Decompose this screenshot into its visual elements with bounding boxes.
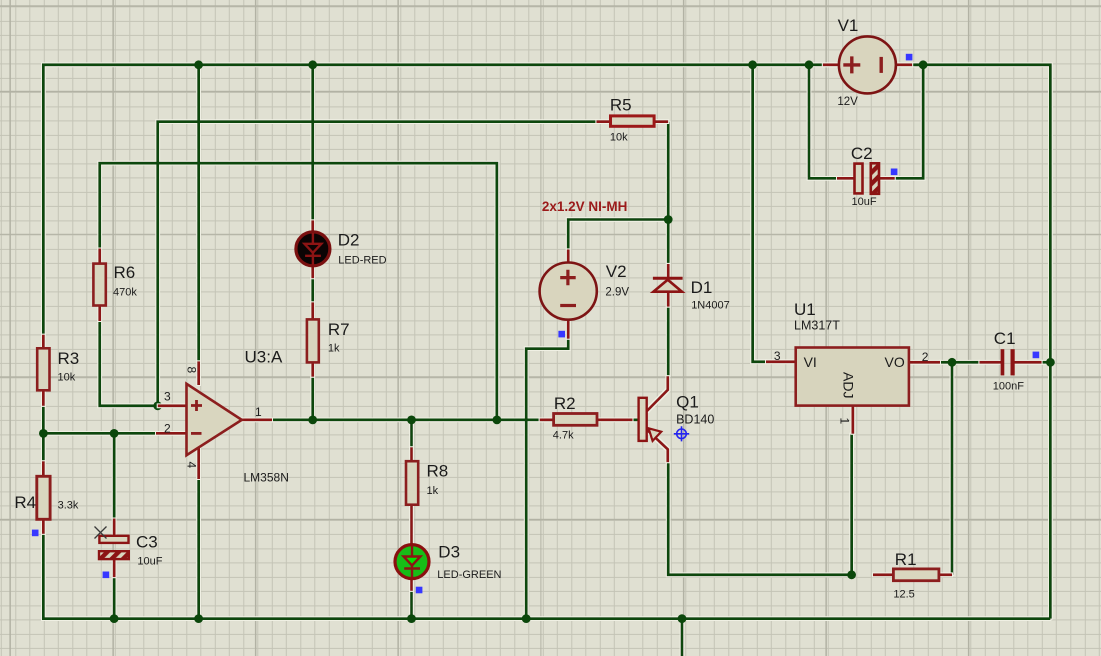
- wire v rail x=198.6 upper: [197, 65, 200, 362]
- junction top rail x=198.6: [194, 60, 203, 69]
- svg-text:ADJ: ADJ: [841, 372, 857, 398]
- capacitor C2 10uF (polarized): [855, 163, 880, 194]
- LED D2 LED-RED: [296, 232, 330, 266]
- svg-text:V2: V2: [606, 262, 627, 281]
- resistor R4 3.3k: [37, 476, 50, 519]
- pin stub U1 pin3: [766, 360, 797, 363]
- svg-text:C2: C2: [851, 144, 873, 163]
- pin stub R3 top: [42, 335, 45, 349]
- battery V2 2.9V: [540, 263, 597, 320]
- pin stub D1 top: [667, 264, 670, 278]
- pin stub R1 right: [939, 573, 953, 576]
- pin stub R2 right: [597, 418, 633, 421]
- svg-text:10k: 10k: [58, 372, 76, 384]
- svg-text:1k: 1k: [328, 343, 340, 355]
- pin stub Q1 collector: [647, 376, 668, 411]
- pin stub Q1 emitter: [647, 430, 668, 463]
- svg-text:3.3k: 3.3k: [58, 500, 79, 512]
- svg-text:1: 1: [255, 405, 262, 419]
- wire U1 VO rail: [940, 361, 979, 364]
- pin stub V2 bottom: [567, 320, 570, 339]
- wire C1 right link: [1042, 361, 1051, 364]
- junction bottom rail x=114: [110, 614, 119, 623]
- pin stub C2 right: [879, 177, 895, 180]
- junction plus input: [153, 401, 162, 410]
- svg-text:1N4007: 1N4007: [691, 300, 730, 312]
- wire D3 bottom link: [410, 591, 413, 619]
- wire R8 top link: [410, 420, 413, 447]
- blue handle C1: [1033, 352, 1040, 359]
- pin stub R6 bottom: [98, 305, 101, 321]
- wire R7 to output rail: [311, 377, 314, 420]
- wire minus input rail y=433.4: [43, 432, 156, 435]
- pin stub R8 to D3: [410, 504, 413, 545]
- svg-text:BD140: BD140: [676, 413, 714, 427]
- svg-text:LED-GREEN: LED-GREEN: [437, 569, 501, 581]
- wire D1 to Q1 collector: [667, 307, 670, 376]
- junction bottom rail x=198.6: [194, 614, 203, 623]
- pin stub C3 bottom: [113, 559, 116, 577]
- wire bottom rail y=617: [43, 534, 1050, 619]
- svg-text:2: 2: [164, 422, 171, 436]
- junction top rail x=312.7: [308, 60, 317, 69]
- pin stub R8 top: [410, 447, 413, 462]
- wire output rail y=419.9: [272, 418, 597, 421]
- wire V1 right link: [912, 63, 923, 66]
- svg-text:R7: R7: [328, 320, 350, 339]
- junction VO rail x=952: [948, 358, 957, 367]
- junction bottom rail x=682: [678, 614, 687, 623]
- svg-text:U1: U1: [794, 300, 816, 319]
- pin stub C1 right: [1014, 361, 1042, 364]
- wire C2 right branch x=923: [895, 65, 923, 179]
- svg-text:U3:A: U3:A: [245, 348, 283, 367]
- svg-text:D1: D1: [691, 278, 713, 297]
- pin stub R2 left: [540, 418, 555, 421]
- svg-text:2: 2: [922, 350, 929, 364]
- junction top rail x=809: [805, 60, 814, 69]
- svg-text:8: 8: [184, 367, 198, 374]
- pin stub opamp out: [241, 418, 272, 421]
- svg-text:470k: 470k: [113, 287, 137, 299]
- svg-text:R4: R4: [14, 493, 36, 512]
- svg-text:R3: R3: [58, 349, 80, 368]
- svg-text:2x1.2V NI-MH: 2x1.2V NI-MH: [542, 199, 628, 214]
- svg-text:2.9V: 2.9V: [605, 287, 629, 299]
- junction output rail x=496.4: [493, 416, 502, 425]
- resistor R7 1k: [307, 319, 319, 362]
- svg-text:R8: R8: [427, 462, 449, 481]
- wire V2 bottom elbow: [526, 339, 568, 619]
- pin stub D2 top: [311, 220, 314, 232]
- junction top rail x=752.6: [748, 60, 757, 69]
- wire C3 top link: [113, 433, 116, 518]
- diode D1 1N4007: [653, 278, 683, 292]
- svg-text:Q1: Q1: [676, 393, 699, 412]
- marker crosshair at Q1: [674, 426, 689, 441]
- svg-text:VI: VI: [804, 354, 817, 370]
- wire U1 ADJ down x=851.6: [850, 434, 853, 575]
- junction node V2/D1 branch: [664, 215, 673, 224]
- regulator U1 LM317T: [796, 348, 909, 406]
- svg-text:4.7k: 4.7k: [553, 430, 574, 442]
- svg-text:4: 4: [184, 462, 198, 469]
- svg-text:C1: C1: [994, 329, 1016, 348]
- pin stub opamp pin4: [197, 447, 200, 479]
- pin stub opamp minus: [156, 432, 187, 435]
- svg-text:10uF: 10uF: [137, 556, 162, 568]
- wire top rail y=64: [43, 65, 1050, 619]
- resistor R6 470k: [93, 264, 105, 306]
- pin stub R5 right: [654, 120, 669, 123]
- wire D2-R7 link: [311, 278, 314, 302]
- junction top rail x=923: [919, 60, 928, 69]
- svg-text:1: 1: [838, 418, 852, 425]
- wire H3 y=163: [100, 163, 497, 420]
- blue handle V2: [558, 331, 565, 338]
- resistor R2 4.7k: [554, 414, 597, 426]
- junction ADJ/R1: [847, 570, 856, 579]
- blue handle C2: [891, 169, 898, 176]
- svg-text:D3: D3: [438, 543, 460, 562]
- wire U1 VI feed x=752.6: [753, 65, 766, 362]
- svg-text:D2: D2: [338, 231, 360, 250]
- wire R6 bottom to plus input: [100, 321, 158, 406]
- pin stub D3 bottom: [410, 579, 413, 591]
- wire C3 bottom link: [113, 577, 116, 618]
- marker X on C3: [95, 527, 107, 539]
- svg-text:R6: R6: [114, 263, 136, 282]
- wire R5 right down x=668: [667, 122, 670, 264]
- wire H2 y=121.6 to R5: [158, 122, 597, 406]
- resistor R1 12.5: [893, 569, 939, 581]
- pin stub R1 left: [873, 573, 894, 576]
- blue handle C3: [103, 572, 110, 579]
- resistor R8 1k: [406, 461, 418, 505]
- junction minus rail x=43: [39, 429, 48, 438]
- svg-text:10k: 10k: [610, 132, 628, 144]
- wire Q1 base green gap: [633, 418, 639, 421]
- wire v rail x=198.6 lower: [197, 479, 200, 619]
- junction output rail x=411.5: [407, 416, 416, 425]
- junction bottom rail x=411.5: [407, 614, 416, 623]
- wire C2 left branch x=809: [809, 65, 837, 179]
- resistor R5 10k: [611, 116, 655, 126]
- svg-text:LM317T: LM317T: [794, 319, 840, 333]
- svg-text:LM358N: LM358N: [244, 471, 289, 485]
- svg-text:10uF: 10uF: [852, 196, 877, 208]
- svg-text:3: 3: [774, 349, 781, 363]
- battery V1 12V: [839, 36, 896, 93]
- wire ground stub x=682: [681, 619, 684, 656]
- junction output rail x=312.7: [308, 416, 317, 425]
- pin stub R7 bottom: [311, 361, 314, 376]
- capacitor C3 10uF (polarized): [99, 536, 129, 559]
- svg-text:R5: R5: [610, 96, 632, 115]
- pin stub D2 bottom: [311, 266, 314, 279]
- svg-text:1k: 1k: [427, 485, 439, 497]
- wire R3-R4 link: [42, 406, 45, 461]
- junction minus rail x=114: [110, 429, 119, 438]
- wire V2 top branch y=219.5: [568, 220, 668, 250]
- svg-text:3: 3: [164, 390, 171, 404]
- blue handle V1: [906, 54, 913, 61]
- wire D2 rail upper x=312.7: [311, 65, 314, 221]
- resistor R3 10k: [37, 348, 49, 390]
- wire Q1 emitter to R1: [668, 462, 851, 575]
- pin stub opamp plus: [158, 404, 187, 407]
- pin stub U1 ADJ: [852, 405, 855, 434]
- pin stub R4 bottom: [42, 519, 45, 534]
- LED D3 LED-GREEN: [395, 545, 429, 579]
- pin stub R4 top: [42, 461, 45, 477]
- pin stub C2 left: [837, 177, 855, 180]
- svg-text:C3: C3: [136, 533, 158, 552]
- svg-text:VO: VO: [885, 354, 905, 370]
- svg-text:R1: R1: [895, 550, 917, 569]
- pin stub R7 top: [311, 302, 314, 320]
- pin stub U1 VO: [908, 361, 940, 364]
- RED PIN STUBS: [43, 65, 1041, 591]
- pin stub V1 right: [896, 63, 913, 66]
- pin stub V2 top: [567, 249, 570, 263]
- svg-text:100nF: 100nF: [993, 381, 1024, 393]
- blue handle R4: [32, 530, 39, 537]
- svg-text:12V: 12V: [837, 96, 858, 108]
- svg-text:R2: R2: [554, 394, 576, 413]
- junction C1 right: [1046, 358, 1055, 367]
- transistor Q1 BD140: [639, 398, 662, 441]
- svg-text:12.5: 12.5: [893, 589, 914, 601]
- pin stub V1 left: [823, 63, 840, 66]
- pin stub R6 top: [98, 249, 101, 265]
- svg-text:LED-RED: LED-RED: [338, 255, 386, 267]
- pin stub R3 bottom: [42, 390, 45, 406]
- op-amp U3:A LM358N: [187, 384, 242, 455]
- pin stub D1 bottom: [667, 292, 670, 307]
- wire VO down to R1 x=952: [951, 362, 954, 575]
- capacitor C1 100nF: [1001, 349, 1015, 375]
- svg-text:V1: V1: [838, 16, 859, 35]
- pin stub R5 left: [596, 120, 611, 123]
- junction bottom rail x=526: [522, 614, 531, 623]
- pin stub C3 top: [113, 519, 116, 537]
- pin stub C1 left: [979, 361, 1001, 364]
- blue handle D3: [416, 587, 423, 594]
- pin stub opamp pin8: [197, 361, 200, 385]
